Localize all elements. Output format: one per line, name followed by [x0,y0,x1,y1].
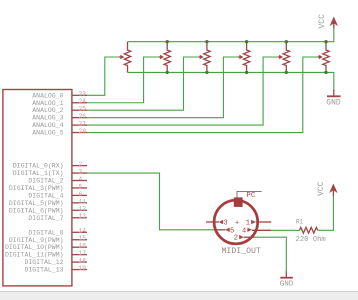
pin DIGITAL_0(RX) label [13,163,64,170]
pin stub 6 [72,191,87,198]
connector X1 center plus [235,220,239,228]
pin stub 13 [72,213,87,220]
svg-text:GND: GND [280,281,294,289]
junction bottom rail pot6 [324,71,327,74]
connector IC1 box [3,90,72,286]
svg-text:4: 4 [242,227,246,235]
svg-text:3: 3 [79,169,83,176]
wire net A2 [87,57,198,110]
pin stub 27 [72,121,87,128]
wire net TX to MIDI pin5 [87,173,214,230]
svg-text:DIGITAL_7: DIGITAL_7 [28,215,63,222]
connector X1 MIDI DIN circle [214,200,258,244]
pin stub 12 [72,206,87,213]
pin ANALOG_4 label [32,122,63,129]
pin stub 5 [72,183,87,190]
potentiometer P1 [119,42,131,73]
pin stub 24 [72,98,87,105]
pin DIGITAL_6(PWM) label [9,207,64,214]
canvas bottom edge [0,292,358,300]
junction bottom rail pot4 [245,71,248,74]
pin DIGITAL_2 label [28,178,63,185]
pin DIGITAL_3(PWM) label [9,185,64,192]
pin stub 14 [72,228,87,235]
potentiometer P6 [318,42,330,73]
connector X1 pin 3 stub [206,220,228,228]
wire VCC top rail [128,29,334,42]
pin stub 25 [72,106,87,113]
wire net MIDI pin2 to GND [254,237,286,271]
pin stub 11 [72,198,87,205]
svg-text:25: 25 [79,106,87,113]
svg-text:DIGITAL_2: DIGITAL_2 [28,178,63,185]
svg-text:DIGITAL_9(PWM): DIGITAL_9(PWM) [9,237,64,244]
connector X1 pin 1 stub [246,220,271,228]
svg-text:DIGITAL_5(PWM): DIGITAL_5(PWM) [9,200,64,207]
svg-text:11: 11 [79,198,87,205]
svg-text:4: 4 [79,176,83,183]
svg-text:ANALOG_1: ANALOG_1 [32,100,63,107]
svg-text:ANALOG_5: ANALOG_5 [32,130,63,137]
junction bottom rail pot2 [166,71,169,74]
connector X1 pin 4 stub [242,227,271,235]
svg-text:14: 14 [79,228,87,235]
pin stub 23 [72,91,87,98]
pin DIGITAL_5(PWM) label [9,200,64,207]
svg-text:DIGITAL_0(RX): DIGITAL_0(RX) [13,163,64,170]
wire net A5 [87,57,318,133]
pin ANALOG_5 label [32,130,63,137]
svg-text:6: 6 [79,191,83,198]
svg-text:13: 13 [79,213,87,220]
svg-text:DIGITAL_6(PWM): DIGITAL_6(PWM) [9,207,64,214]
svg-text:DIGITAL_12: DIGITAL_12 [24,259,63,266]
svg-text:ANALOG_2: ANALOG_2 [32,107,63,114]
supply GND top [326,90,341,108]
svg-text:23: 23 [79,91,87,98]
svg-text:28: 28 [79,128,87,135]
connector X1 pin 5 stub [214,227,234,235]
junction top rail pot6 [324,40,327,43]
svg-text:DIGITAL_3(PWM): DIGITAL_3(PWM) [9,185,64,192]
wire net A3 [87,57,238,118]
pin DIGITAL_12 label [24,259,63,266]
svg-text:ANALOG_0: ANALOG_0 [32,92,63,99]
svg-text:18: 18 [79,258,87,265]
svg-text:220 Ohm: 220 Ohm [296,236,326,244]
potentiometer P5 [278,42,290,73]
svg-text:DIGITAL_8: DIGITAL_8 [28,229,63,236]
pin stub 3 [72,169,87,176]
pin DIGITAL_1(TX) label [13,170,64,177]
junction top rail pot3 [205,40,208,43]
svg-text:24: 24 [79,98,87,105]
svg-text:2: 2 [234,235,238,243]
junction bottom rail pot5 [285,71,288,74]
svg-text:5: 5 [79,183,83,190]
junction top rail pot5 [285,40,288,43]
pin stub 18 [72,258,87,265]
svg-text:+: + [235,220,239,228]
svg-text:26: 26 [79,113,87,120]
svg-text:DIGITAL_13: DIGITAL_13 [24,267,63,274]
svg-text:3: 3 [224,220,228,228]
svg-text:27: 27 [79,121,87,128]
wire net A4 [87,57,278,125]
connector X1 shield tab [234,197,243,207]
svg-text:VCC: VCC [318,14,327,29]
junction top rail pot4 [245,40,248,43]
pin stub 4 [72,176,87,183]
supply VCC right [317,181,338,196]
connector X1 pin 2 stub [234,235,254,243]
pin stub 15 [72,235,87,242]
svg-text:16: 16 [79,243,87,250]
supply GND right [280,271,294,288]
potentiometer P4 [238,42,250,73]
wire net R1 to VCC [318,197,334,231]
svg-text:DIGITAL_1(TX): DIGITAL_1(TX) [13,170,64,177]
pin ANALOG_0 label [32,92,63,99]
svg-text:12: 12 [79,206,87,213]
wire net A1 [87,57,159,103]
pin stub 2 [72,161,87,168]
potentiometer P2 [159,42,171,73]
label R1 [296,218,304,225]
svg-text:PC: PC [246,192,256,200]
wire net MIDI pin4 to R1 [271,229,299,231]
svg-text:1: 1 [246,220,250,228]
pin DIGITAL_4 label [28,192,63,199]
svg-text:ANALOG_3: ANALOG_3 [32,115,63,122]
pin stub 16 [72,243,87,250]
pin ANALOG_1 label [32,100,63,107]
supply VCC top [318,14,338,29]
pin DIGITAL_8 label [28,229,63,236]
pin DIGITAL_13 label [24,267,63,274]
svg-text:15: 15 [79,235,87,242]
svg-text:DIGITAL_10(PWM): DIGITAL_10(PWM) [5,244,64,251]
connector X1 name MIDI_OUT [222,247,261,256]
resistor R1 [300,227,318,233]
pin stub 26 [72,113,87,120]
svg-text:MIDI_OUT: MIDI_OUT [222,247,261,256]
potentiometer P3 [198,42,210,73]
connector X1 name PC leader [237,191,262,200]
pin ANALOG_3 label [32,115,63,122]
svg-text:R1: R1 [296,218,304,225]
junction top rail pot2 [166,40,169,43]
svg-text:17: 17 [79,250,87,257]
pin DIGITAL_10(PWM) label [5,244,64,251]
svg-text:DIGITAL_4: DIGITAL_4 [28,192,63,199]
pin DIGITAL_9(PWM) label [9,237,64,244]
pin DIGITAL_11(PWM) label [5,252,64,259]
svg-text:19: 19 [79,265,87,272]
wire GND bottom rail [128,72,334,89]
svg-text:ANALOG_4: ANALOG_4 [32,122,63,129]
value 220 Ohm [296,236,326,244]
pin DIGITAL_7 label [28,215,63,222]
svg-text:DIGITAL_11(PWM): DIGITAL_11(PWM) [5,252,64,259]
junction bottom rail pot3 [205,71,208,74]
wire net A0 [87,57,119,95]
pin stub 28 [72,128,87,135]
svg-text:2: 2 [79,161,83,168]
pin stub 17 [72,250,87,257]
pin ANALOG_2 label [32,107,63,114]
svg-text:VCC: VCC [317,181,326,196]
svg-text:GND: GND [326,98,341,107]
pin stub 19 [72,265,87,272]
